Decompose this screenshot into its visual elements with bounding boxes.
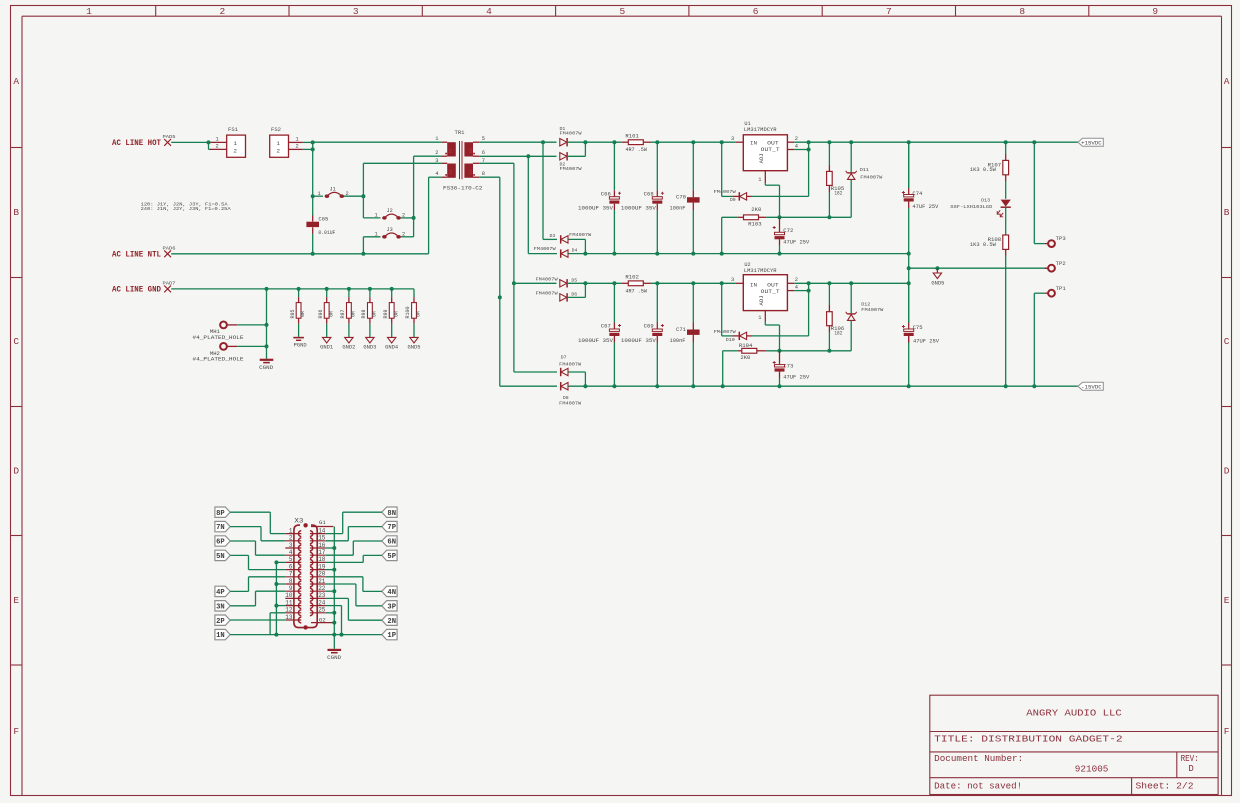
wire R103 left to return rail: [722, 216, 738, 218]
wire raw rail to R101: [585, 141, 621, 143]
wire TR1 pin5 row: [479, 141, 556, 143]
wire pin 11 to left ground bus: [276, 605, 285, 607]
svg-text:7: 7: [289, 571, 293, 578]
svg-text:R102: R102: [625, 275, 639, 281]
junction pin 22 ground: [332, 589, 336, 593]
svg-text:2K0: 2K0: [740, 355, 750, 361]
svg-text:2: 2: [402, 232, 405, 238]
svg-text:1N: 1N: [216, 632, 225, 640]
junction U2 OUT at 0V bus: [907, 281, 911, 285]
junction G2 ground: [332, 621, 336, 625]
junction FS2 pin2: [311, 147, 315, 151]
junction ADJ at R105: [827, 215, 831, 219]
junction D3 D4 join: [583, 252, 587, 256]
wire AC LINE HOT to FS1: [171, 141, 208, 143]
resistor R96: [326, 289, 328, 297]
junction pin6 to D4 branch: [526, 154, 530, 158]
junction R106 top: [827, 281, 831, 285]
junction gnd rail at R99: [390, 287, 394, 291]
svg-text:0.01UF: 0.01UF: [318, 230, 335, 236]
svg-text:FM4007W: FM4007W: [560, 131, 582, 137]
svg-text:A: A: [1224, 76, 1230, 87]
capacitor C68: [656, 142, 658, 190]
svg-text:4: 4: [795, 284, 798, 290]
svg-text:R99: R99: [383, 309, 389, 318]
title block: [930, 695, 1218, 794]
svg-text:1: 1: [277, 140, 281, 147]
mounting hole MH1: [220, 322, 227, 329]
svg-text:S2: S2: [470, 148, 474, 154]
wire 4N to X3: [363, 590, 382, 592]
svg-text:R101: R101: [625, 134, 639, 140]
svg-text:3: 3: [289, 542, 293, 549]
svg-text:14: 14: [318, 527, 326, 534]
capacitor C71: [692, 283, 694, 322]
svg-text:FM4007W: FM4007W: [714, 189, 736, 195]
wire 8N to X3: [343, 511, 382, 513]
svg-text:FM4007W: FM4007W: [534, 246, 556, 252]
svg-text:4R7 .5W: 4R7 .5W: [625, 147, 647, 153]
svg-text:4: 4: [289, 549, 293, 556]
wire U1 ADJ down: [764, 183, 766, 185]
junction IN2 branch: [720, 281, 724, 285]
flag 2P: [215, 615, 230, 625]
junction C67 bottom: [612, 384, 616, 388]
wire ADJ2 line: [766, 350, 851, 352]
wire D4 branch vertical: [527, 156, 529, 253]
resistor R106: [828, 283, 830, 305]
svg-text:D11: D11: [860, 167, 869, 173]
junction pin8 at D6 row: [498, 295, 502, 299]
wire TR1 pin7 to lower bridge: [479, 162, 514, 164]
resistor R107: [1005, 142, 1007, 154]
svg-text:4N: 4N: [387, 589, 396, 597]
svg-text:1: 1: [435, 136, 438, 142]
flag 7N: [215, 521, 230, 531]
svg-text:0R: 0R: [393, 311, 399, 317]
wire AC LINE GND rail: [171, 288, 414, 290]
flag 8P: [215, 507, 230, 517]
svg-text:1: 1: [234, 140, 238, 147]
svg-text:#4_PLATED_HOLE: #4_PLATED_HOLE: [193, 335, 244, 341]
wire J1 junction up to TR1 pin 3: [362, 163, 364, 196]
wire FS2 pin1 to junction: [303, 141, 313, 143]
wire 2P to X3: [230, 619, 285, 621]
svg-text:12: 12: [285, 607, 293, 614]
svg-text:0R: 0R: [416, 311, 422, 317]
junction +15 rail at TP3 branch: [1032, 140, 1036, 144]
svg-text:5: 5: [482, 136, 485, 142]
ground GND2: [348, 324, 350, 338]
wire 5N to X3: [230, 554, 248, 556]
junction GND5 drop: [935, 266, 939, 270]
wire pin 8 to left ground bus: [276, 583, 285, 585]
svg-text:J3: J3: [387, 227, 393, 233]
svg-text:E: E: [1224, 595, 1230, 606]
wire X3 ground bus right: [333, 527, 335, 649]
wire vertical hot bus: [312, 142, 314, 215]
capacitor C65: [312, 216, 314, 222]
junction C66 bottom: [612, 252, 616, 256]
wire U2 OUT to 0V bus: [794, 282, 909, 284]
flag 3N: [215, 601, 230, 611]
svg-text:3: 3: [731, 277, 734, 283]
svg-text:8: 8: [482, 171, 485, 177]
svg-text:R103: R103: [748, 222, 762, 228]
wire D7 feed: [514, 371, 557, 373]
svg-text:FM4007W: FM4007W: [860, 175, 882, 181]
wire pin 19 to ground bus: [326, 569, 335, 571]
wire raw rail 2 to R102: [585, 282, 621, 284]
svg-text:1: 1: [758, 177, 761, 183]
svg-text:8: 8: [289, 578, 293, 585]
wire U1 OUT_T jog: [794, 149, 808, 151]
svg-text:9: 9: [289, 585, 293, 592]
junction MH1 on CGND branch: [265, 323, 269, 327]
junction C71 bottom: [691, 384, 695, 388]
junction D1 D2 join: [583, 140, 587, 144]
wire pin 25 to ground bus: [326, 612, 335, 614]
junction pin 19 ground: [332, 568, 336, 572]
svg-text:TP1: TP1: [1056, 286, 1066, 292]
svg-text:R96: R96: [318, 309, 324, 318]
resistor R98: [369, 289, 371, 297]
wire 6P to X3: [230, 540, 255, 542]
junction ADJ at C72: [778, 215, 782, 219]
junction C69 bottom: [655, 384, 659, 388]
resistor R100: [413, 289, 415, 297]
svg-text:C70: C70: [676, 195, 686, 201]
svg-text:R98: R98: [361, 309, 367, 318]
ground GND4: [391, 324, 393, 338]
svg-text:1000UF 35V: 1000UF 35V: [621, 206, 657, 212]
junction R104 left branch: [721, 384, 725, 388]
flag 8N: [382, 507, 397, 517]
wire AC LINE NTL bus: [171, 253, 428, 255]
junction C70 bottom: [691, 252, 695, 256]
wire OUT_T down to D9 anode line: [808, 142, 810, 196]
svg-text:2: 2: [234, 148, 238, 155]
svg-text:F: F: [13, 726, 19, 737]
svg-text:R97: R97: [340, 309, 346, 318]
svg-text:P2: P2: [450, 169, 454, 175]
svg-text:2: 2: [220, 6, 226, 17]
junction minus at R108: [1004, 384, 1008, 388]
svg-text:REV:: REV:: [1181, 754, 1199, 764]
junction OUT_T riser: [807, 140, 811, 144]
wire J1 junction down to J2: [362, 196, 364, 218]
junction pin5 to D3 branch: [541, 140, 545, 144]
wire TR1 pin8 to lower bridge: [479, 176, 500, 178]
junction C67 top: [612, 281, 616, 285]
svg-text:0R: 0R: [300, 311, 306, 317]
wire D2 up to rail: [568, 155, 585, 157]
svg-text:9: 9: [1152, 6, 1158, 17]
svg-text:LM317MDCYR: LM317MDCYR: [744, 268, 777, 274]
svg-text:2: 2: [296, 144, 299, 150]
junction D12 top: [849, 281, 853, 285]
junction R103 left branch: [720, 252, 724, 256]
svg-text:S1: S1: [470, 169, 474, 175]
wire D8 feed: [500, 385, 557, 387]
svg-text:6P: 6P: [216, 539, 225, 547]
junction bottom line at X3 ground bus: [332, 633, 336, 637]
svg-text:GND3: GND3: [363, 344, 376, 350]
svg-text:D3: D3: [550, 233, 556, 239]
svg-text:Sheet: 2/2: Sheet: 2/2: [1136, 781, 1194, 791]
svg-text:4R7 .5W: 4R7 .5W: [625, 288, 647, 294]
junction C72 bottom: [778, 252, 782, 256]
svg-text:3: 3: [353, 6, 359, 17]
connector X3: [285, 518, 333, 630]
svg-text:1: 1: [86, 6, 92, 17]
svg-text:FM4007W: FM4007W: [536, 290, 558, 296]
junction D7 D8 join: [583, 384, 587, 388]
wire D6 up to rail: [568, 296, 585, 298]
svg-text:IN: IN: [750, 282, 757, 289]
svg-text:P1: P1: [450, 148, 454, 154]
svg-text:OUT_T: OUT_T: [761, 146, 781, 153]
wire FS2 pin2 to junction: [303, 148, 313, 150]
diode D8: [560, 382, 562, 390]
wire 2N to X3: [348, 619, 381, 621]
svg-text:1: 1: [318, 191, 321, 197]
svg-text:1: 1: [289, 527, 293, 534]
svg-text:3: 3: [435, 158, 438, 164]
wire R104 left to minus rail: [723, 350, 738, 352]
svg-text:GND1: GND1: [320, 344, 333, 350]
wire 3N to X3: [230, 605, 255, 607]
svg-text:TP3: TP3: [1056, 236, 1066, 242]
flag 4N: [382, 586, 397, 596]
junction R105 top: [827, 140, 831, 144]
svg-text:5P: 5P: [387, 553, 396, 561]
svg-text:47UF 25V: 47UF 25V: [912, 204, 939, 210]
junction C68 bottom: [655, 252, 659, 256]
svg-text:ADJ: ADJ: [758, 153, 765, 163]
wire junction down to FS1 pin 2: [208, 142, 210, 149]
svg-text:7: 7: [886, 6, 892, 17]
wire bottom ground line: [334, 634, 341, 636]
junction at FS1 pin 1: [207, 140, 211, 144]
wire J3 pin1 to NTL bus: [363, 236, 380, 238]
svg-text:182: 182: [834, 190, 842, 196]
ground GND5: [413, 324, 415, 338]
wire OUT_T down to D10 anode line: [808, 283, 810, 336]
svg-text:47UF 25V: 47UF 25V: [913, 339, 940, 345]
svg-text:LM317MDCYR: LM317MDCYR: [744, 127, 777, 133]
junction C68 top: [655, 140, 659, 144]
svg-text:#4_PLATED_HOLE: #4_PLATED_HOLE: [193, 357, 244, 363]
capacitor C69: [656, 283, 658, 322]
svg-text:6: 6: [753, 6, 759, 17]
svg-text:ADJ: ADJ: [758, 295, 765, 305]
svg-text:FM4007W: FM4007W: [536, 276, 558, 282]
junction return at 0V bus: [907, 252, 911, 256]
wire D3 branch vertical: [542, 142, 544, 239]
svg-text:1K3 0.5W: 1K3 0.5W: [970, 167, 997, 173]
wire pin 16 to ground bus: [326, 547, 335, 549]
svg-text:1000UF 35V: 1000UF 35V: [578, 206, 614, 212]
svg-text:1K3 0.5W: 1K3 0.5W: [970, 242, 997, 248]
ground CGND X3: [328, 649, 342, 651]
mounting hole MH2: [220, 343, 227, 350]
ground PGND: [298, 324, 300, 337]
wire NTL up to TR1 pin 4: [428, 177, 430, 254]
svg-text:11: 11: [285, 599, 293, 606]
svg-text:X3: X3: [294, 518, 303, 525]
regulator U2: [731, 262, 798, 321]
wire 4P to X3: [230, 590, 248, 592]
svg-text:SSF-LXH103LGD: SSF-LXH103LGD: [950, 204, 992, 210]
svg-text:F: F: [1224, 726, 1230, 737]
svg-text:FM4007W: FM4007W: [569, 232, 591, 238]
flag 1P: [382, 629, 397, 639]
flag 3P: [382, 601, 397, 611]
svg-text:J2: J2: [387, 208, 393, 214]
wire pin 12 to bottom ground line: [270, 612, 285, 614]
svg-text:19: 19: [318, 563, 326, 570]
svg-text:47UF 25V: 47UF 25V: [783, 240, 810, 246]
svg-text:4P: 4P: [216, 589, 225, 597]
svg-text:1P: 1P: [387, 632, 396, 640]
svg-text:47UF 25V: 47UF 25V: [783, 375, 810, 381]
capacitor C67: [613, 283, 615, 322]
flag 2N: [382, 615, 397, 625]
jumper J1: [313, 195, 323, 197]
svg-text:3: 3: [731, 136, 734, 142]
wire D3 down to return rail: [568, 238, 585, 240]
svg-text:5: 5: [289, 556, 293, 563]
wire D5 row: [514, 282, 557, 284]
svg-text:FM4007W: FM4007W: [714, 329, 736, 335]
svg-text:6: 6: [289, 563, 293, 570]
wire J2 junction up to TR1 pin 2: [413, 156, 415, 218]
svg-text:D: D: [1224, 466, 1230, 477]
svg-text:6: 6: [482, 150, 485, 156]
wire 1N to X3: [230, 634, 334, 636]
junction pin 5 ground: [274, 560, 278, 564]
svg-text:FS36-170-C2: FS36-170-C2: [443, 185, 483, 191]
svg-text:2N: 2N: [387, 618, 396, 626]
wire 3P to X3: [356, 605, 382, 607]
flag 5P: [382, 550, 397, 560]
svg-text:15: 15: [318, 535, 326, 542]
svg-text:23: 23: [318, 592, 326, 599]
junction pin 25 ground: [332, 611, 336, 615]
svg-text:2P: 2P: [216, 618, 225, 626]
svg-text:22: 22: [318, 585, 326, 592]
svg-text:6N: 6N: [387, 539, 396, 547]
junction left ground at bottom line: [274, 633, 278, 637]
junction gnd rail at R96: [325, 287, 329, 291]
svg-text:4: 4: [486, 6, 492, 17]
junction J1 pin2: [361, 194, 365, 198]
junction minus at 0V bus: [907, 384, 911, 388]
svg-text:-15VDC: -15VDC: [1081, 383, 1102, 390]
junction D5 D6 join: [583, 281, 587, 285]
junction J2 pin2: [412, 216, 416, 220]
flag 5N: [215, 550, 230, 560]
capacitor C73: [773, 361, 776, 364]
svg-text:CGND: CGND: [327, 655, 341, 661]
flag 6P: [215, 536, 230, 546]
svg-text:7P: 7P: [387, 524, 396, 532]
svg-text:8P: 8P: [216, 510, 225, 518]
flag 4P: [215, 586, 230, 596]
svg-text:TP2: TP2: [1056, 261, 1066, 267]
svg-text:8N: 8N: [387, 510, 396, 518]
svg-text:+15VDC: +15VDC: [1081, 139, 1102, 146]
junction IN net branch: [720, 140, 724, 144]
junction gnd rail at R98: [368, 287, 372, 291]
wire minus rail: [568, 385, 1078, 387]
svg-text:1: 1: [758, 315, 761, 321]
wire D10 cathode to IN2 branch: [721, 283, 723, 336]
svg-text:182: 182: [834, 331, 842, 337]
wire 0V bus vertical: [908, 142, 910, 188]
svg-text:921005: 921005: [1075, 764, 1109, 774]
svg-text:R95: R95: [290, 309, 296, 318]
svg-text:8: 8: [1019, 6, 1025, 17]
wire 7P to X3: [348, 526, 382, 528]
junction ADJ2 at C73: [778, 349, 782, 353]
wire D10 anode line to OUT riser 2: [752, 335, 809, 337]
svg-text:OUT_T: OUT_T: [761, 288, 781, 295]
flag 1N: [215, 629, 230, 639]
svg-text:21: 21: [318, 578, 326, 585]
resistor R97: [348, 289, 350, 297]
ground GND1: [326, 324, 328, 338]
wire pin 5 to left ground bus: [276, 561, 285, 563]
svg-text:R100: R100: [405, 306, 411, 318]
svg-text:AC LINE HOT: AC LINE HOT: [112, 139, 161, 148]
svg-text:4: 4: [795, 143, 798, 149]
wire 5P to X3: [363, 554, 382, 556]
junction gnd rail at R95: [297, 287, 301, 291]
svg-text:G1: G1: [319, 519, 326, 526]
svg-text:2: 2: [795, 277, 798, 283]
junction pin 8 ground: [274, 582, 278, 586]
supply flag -15VDC: [1078, 382, 1103, 390]
junction NTL at hot-bus vertical: [311, 252, 315, 256]
svg-text:IN: IN: [750, 140, 757, 147]
junction pin 16 ground: [332, 546, 336, 550]
supply flag +15VDC: [1078, 138, 1103, 146]
ground CGND chassis: [260, 359, 274, 361]
capacitor C70: [692, 142, 694, 190]
svg-text:2: 2: [795, 136, 798, 142]
svg-text:E: E: [13, 595, 19, 606]
svg-text:1: 1: [296, 137, 299, 143]
junction C69 top: [655, 281, 659, 285]
capacitor C66: [613, 142, 615, 190]
junction OUT_T riser 2: [807, 281, 811, 285]
diode D2: [560, 153, 567, 160]
svg-text:GND5: GND5: [408, 344, 421, 350]
svg-text:D5: D5: [571, 277, 577, 283]
svg-text:5N: 5N: [216, 553, 225, 561]
svg-text:CGND: CGND: [259, 365, 273, 371]
svg-text:2: 2: [277, 148, 281, 155]
wire hot bus to TR1 pin 1: [313, 141, 442, 143]
wire D9 cathode to IN branch: [721, 142, 723, 196]
svg-text:AC LINE GND: AC LINE GND: [112, 286, 161, 295]
wire D7 down to minus rail: [568, 371, 585, 373]
flag 6N: [382, 536, 397, 546]
svg-text:2: 2: [216, 144, 219, 150]
svg-text:24: 24: [318, 599, 326, 606]
